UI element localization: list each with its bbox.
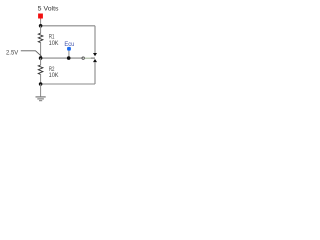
arrow down into Ecu wire	[93, 53, 97, 56]
node Ecu left junction	[39, 56, 43, 60]
wire right vertical lower	[94, 62, 96, 84]
resistor R2	[38, 65, 43, 74]
svg-text:10K: 10K	[49, 72, 59, 79]
node bottom junction	[39, 82, 43, 86]
node Ecu probe junction	[67, 56, 71, 60]
wire R2 top lead	[40, 58, 42, 65]
wire stub from 5V terminal to node	[40, 18, 42, 19]
wire R1 bottom lead	[40, 42, 42, 58]
resistor R1	[38, 33, 43, 42]
svg-text:2.5V: 2.5V	[6, 50, 19, 57]
wire R2 bottom lead	[40, 74, 42, 84]
svg-text:5 Volts: 5 Volts	[38, 7, 59, 13]
wire green segment	[85, 57, 91, 59]
wire top horizontal	[41, 25, 95, 27]
leader line from 2.5V to node	[21, 51, 42, 57]
arrow up into Ecu wire	[93, 59, 97, 62]
terminal Ecu blue square	[67, 47, 71, 51]
wire Ecu horizontal	[41, 57, 83, 59]
wire bottom horizontal	[41, 83, 95, 85]
svg-text:10K: 10K	[49, 40, 59, 47]
wire right vertical upper	[94, 26, 96, 53]
wire R1 top lead	[40, 26, 42, 34]
ground	[36, 97, 46, 101]
open terminal circle	[82, 57, 84, 59]
wire ground lead	[40, 84, 42, 97]
wire segment to arrows	[91, 57, 95, 59]
node top junction	[39, 24, 43, 28]
wire stub from Ecu terminal to node	[68, 51, 70, 58]
terminal 5V red square	[38, 14, 43, 19]
